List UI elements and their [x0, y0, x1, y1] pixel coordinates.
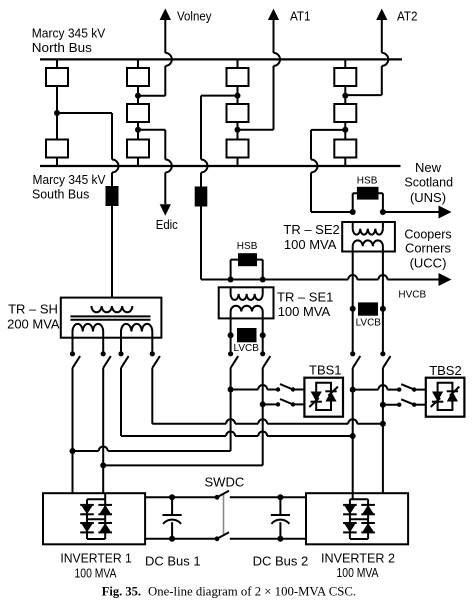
svg-text:100 MVA: 100 MVA [284, 237, 337, 252]
svg-text:SWDC: SWDC [205, 474, 245, 489]
svg-text:TBS1: TBS1 [309, 363, 342, 378]
svg-text:DC Bus 1: DC Bus 1 [145, 554, 201, 569]
svg-text:DC Bus 2: DC Bus 2 [253, 554, 309, 569]
svg-text:South Bus: South Bus [32, 187, 90, 202]
svg-text:Coopers: Coopers [404, 227, 452, 242]
svg-text:TR – SE2: TR – SE2 [283, 222, 339, 237]
svg-text:INVERTER 2: INVERTER 2 [321, 550, 395, 565]
svg-text:INVERTER 1: INVERTER 1 [60, 550, 131, 565]
svg-text:North Bus: North Bus [32, 40, 93, 55]
svg-text:HSB: HSB [237, 241, 258, 252]
svg-text:200 MVA: 200 MVA [7, 317, 60, 332]
svg-text:HSB: HSB [357, 175, 378, 186]
svg-text:Marcy 345 kV: Marcy 345 kV [32, 26, 106, 41]
svg-text:New: New [415, 160, 442, 175]
svg-text:TBS2: TBS2 [429, 363, 462, 378]
svg-text:TR – SE1: TR – SE1 [277, 290, 333, 305]
svg-text:Edic: Edic [156, 217, 178, 232]
svg-text:100 MVA: 100 MVA [337, 565, 379, 580]
svg-text:(UNS): (UNS) [410, 190, 446, 205]
svg-text:AT1: AT1 [290, 9, 311, 24]
svg-text:(UCC): (UCC) [410, 255, 447, 270]
svg-text:TR – SH: TR – SH [8, 302, 58, 317]
svg-text:AT2: AT2 [397, 9, 418, 24]
svg-text:Marcy 345 kV: Marcy 345 kV [33, 172, 106, 187]
svg-text:HVCB: HVCB [398, 290, 426, 301]
svg-text:Volney: Volney [177, 9, 212, 24]
svg-text:LVCB: LVCB [356, 318, 382, 329]
svg-text:100 MVA: 100 MVA [278, 304, 331, 319]
svg-text:Corners: Corners [405, 241, 451, 256]
svg-text:100 MVA: 100 MVA [75, 565, 117, 580]
svg-text:LVCB: LVCB [234, 343, 260, 354]
svg-text:Scotland: Scotland [404, 174, 453, 189]
svg-text:Fig. 35.One-line diagram of 2: Fig. 35.One-line diagram of 2 × 100-MVA … [102, 585, 356, 599]
